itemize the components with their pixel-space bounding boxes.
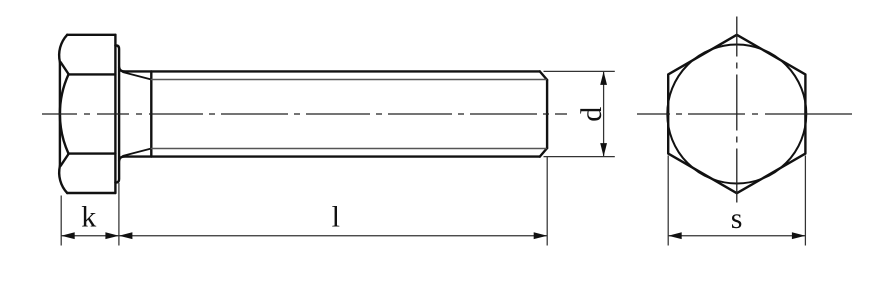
head chamfer arc top-left: [59, 35, 67, 62]
d dimension line: [603, 71, 605, 156]
k dimension line: [61, 235, 119, 237]
s extension line right: [804, 156, 806, 246]
fillet under head top: [119, 67, 124, 71]
head bottom line: [67, 192, 115, 194]
head chamfer line top: [61, 62, 69, 74]
shaft end face: [546, 80, 548, 148]
k extension line left: [60, 196, 62, 246]
s left arrow: [668, 232, 682, 239]
thread runout diagonal bottom: [123, 149, 151, 156]
l dimension line: [119, 235, 547, 237]
end view vertical axis: [736, 17, 738, 203]
d extension line top: [544, 70, 615, 72]
bolt head side view outline: [59, 35, 115, 193]
head middle facet chamfer arc: [60, 74, 69, 153]
arrowheads: [61, 71, 805, 239]
thread runout diagonal top: [123, 72, 151, 79]
head chamfer arc bottom-left: [59, 166, 67, 193]
s dimension line: [668, 235, 805, 237]
s right arrow: [792, 232, 806, 239]
k right arrow: [105, 232, 119, 239]
head right edge (bearing face): [114, 35, 116, 193]
shaft top line: [124, 70, 540, 72]
l extension line right: [546, 157, 548, 246]
hexagon end view: [667, 35, 806, 193]
svg-text:s: s: [731, 202, 743, 235]
shaft bottom line: [124, 155, 540, 157]
head facet line bottom: [69, 152, 116, 154]
shaft outline: [119, 67, 547, 161]
head top line: [67, 34, 115, 36]
side view axis: [42, 113, 567, 115]
end chamfer top: [540, 71, 547, 80]
end chamfer bottom: [540, 148, 547, 157]
d top arrow: [600, 71, 607, 85]
k extension line right: [118, 183, 120, 246]
d extension line bottom: [544, 156, 615, 158]
full-thread boundary: [150, 71, 152, 156]
fillet under head bottom: [119, 157, 124, 161]
inscribed circle: [667, 45, 806, 184]
svg-text:d: d: [575, 107, 608, 122]
d bottom arrow: [600, 143, 607, 157]
s extension line left: [667, 156, 669, 246]
svg-text:l: l: [332, 200, 340, 233]
center lines: [42, 17, 852, 203]
l left arrow: [119, 232, 132, 239]
l right arrow: [534, 232, 548, 239]
hexagon: [668, 35, 805, 193]
washer face lip: [115, 46, 119, 183]
thread root lines: [151, 80, 546, 149]
k left arrow: [61, 232, 74, 239]
dimensions: [61, 71, 805, 245]
head facet line top: [69, 73, 116, 75]
svg-text:k: k: [81, 201, 96, 234]
head chamfer line bottom: [61, 154, 69, 166]
end view horizontal axis: [637, 113, 852, 115]
head end face: [59, 62, 61, 166]
